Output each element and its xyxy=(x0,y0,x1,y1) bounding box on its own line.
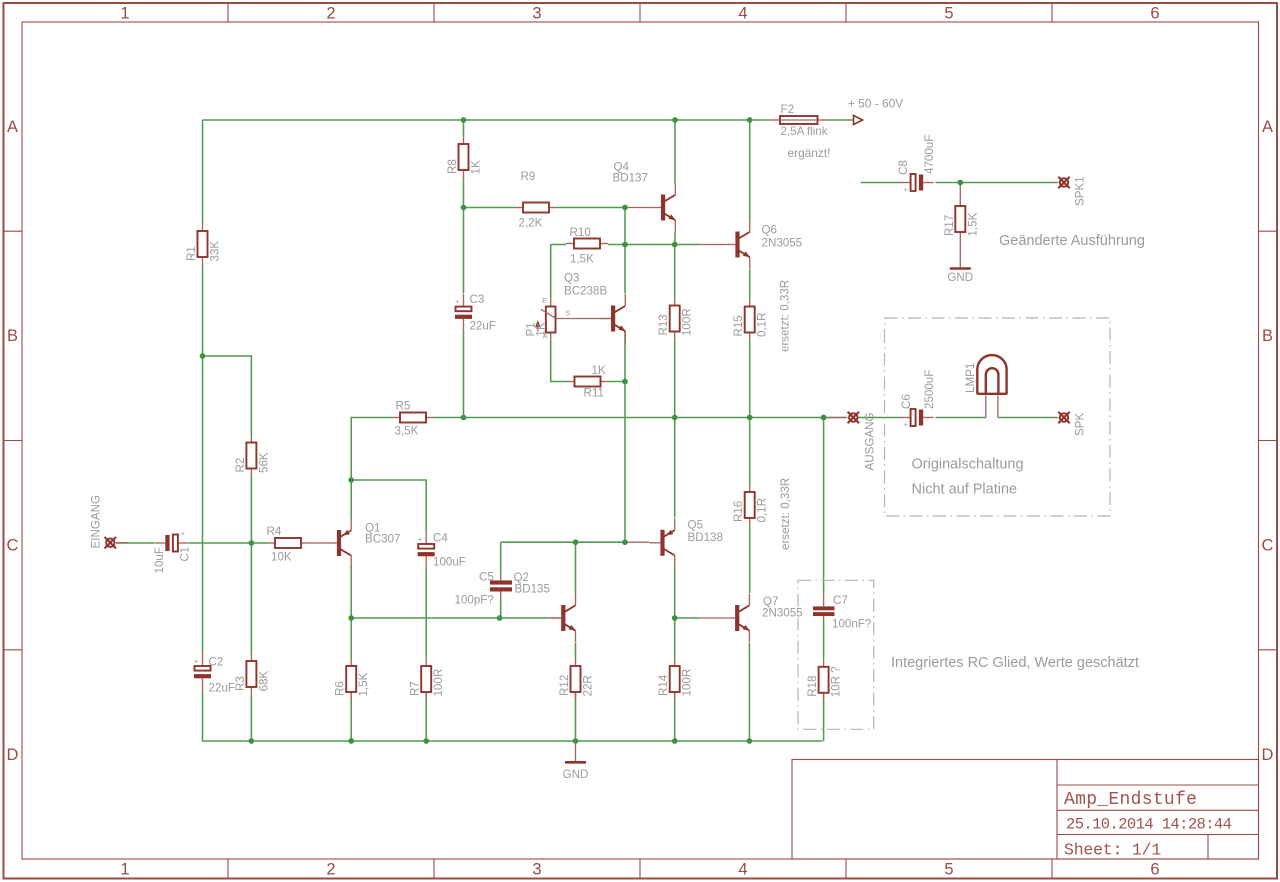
svg-text:+: + xyxy=(904,185,909,194)
wire P1 A to R11 xyxy=(551,341,567,382)
svg-text:4: 4 xyxy=(738,861,747,879)
svg-text:ergänzt!: ergänzt! xyxy=(788,146,831,160)
transistor Q7 xyxy=(724,594,803,643)
wire Q6 emitter to R15 xyxy=(749,270,751,299)
svg-text:1K: 1K xyxy=(592,364,606,377)
junction R1 bottom xyxy=(200,353,206,359)
fuse F2 xyxy=(770,103,828,138)
wire C4 to R7 xyxy=(425,569,427,658)
svg-text:BC238B: BC238B xyxy=(564,285,607,298)
transistor Q4 xyxy=(613,161,676,233)
pin wire node to R17 xyxy=(959,183,961,199)
junction out rail C7 branch xyxy=(821,415,827,421)
dashed box RC Glied xyxy=(798,580,874,729)
svg-text:R6: R6 xyxy=(334,681,347,696)
svg-text:D: D xyxy=(7,746,19,764)
svg-text:SPK1: SPK1 xyxy=(1074,176,1087,206)
wire to C8 xyxy=(861,182,900,184)
svg-text:AUSGANG: AUSGANG xyxy=(864,413,877,471)
svg-text:+: + xyxy=(904,420,909,429)
resistor R10 xyxy=(566,226,608,266)
wire C8 to SPK1 xyxy=(936,182,1054,184)
capacitor C6 xyxy=(900,370,936,429)
svg-text:R16: R16 xyxy=(732,501,745,522)
wire rail to R8 xyxy=(463,120,465,136)
junction rail R6 xyxy=(348,738,354,744)
wire R13 to output rail xyxy=(674,340,676,418)
wire R7 to bottom rail xyxy=(425,692,427,741)
wire R11 to node xyxy=(609,381,626,383)
transistor Q6 xyxy=(724,220,802,269)
pin wire R17 to GND xyxy=(959,240,961,267)
svg-text:R17: R17 xyxy=(943,215,956,236)
junction Q5 base node xyxy=(622,539,628,545)
svg-text:C1: C1 xyxy=(179,547,192,562)
svg-text:100R: 100R xyxy=(681,308,694,336)
capacitor C3 xyxy=(455,293,496,333)
terminal SPK1 xyxy=(1058,177,1069,188)
svg-text:R5: R5 xyxy=(396,400,411,413)
svg-text:3: 3 xyxy=(532,5,541,23)
svg-text:BD138: BD138 xyxy=(688,531,723,544)
transistor Q1 xyxy=(326,519,401,568)
junction rail Q7 xyxy=(747,738,753,744)
wire Q4 base node down xyxy=(624,208,626,245)
wire R8 node to R9 xyxy=(464,207,516,209)
svg-text:1: 1 xyxy=(120,5,129,23)
junction C5 bottom node xyxy=(497,615,503,621)
transistor Q3 xyxy=(564,272,626,344)
wire Q1 collector to R6 xyxy=(350,566,352,658)
wire Q7 emitter to bottom rail xyxy=(748,643,750,741)
svg-text:1,5K: 1,5K xyxy=(966,212,979,236)
wire output rail to R16 xyxy=(749,418,751,485)
wire R18 to bottom rail xyxy=(823,693,825,741)
pin wire to supply arrow xyxy=(851,119,854,121)
wire Q1 collector row xyxy=(351,617,548,619)
svg-text:E: E xyxy=(542,296,547,305)
wire output rail to Q5 emitter xyxy=(674,418,676,518)
wire output node to C7 xyxy=(823,418,825,594)
svg-text:Integriertes RC Glied, Werte g: Integriertes RC Glied, Werte geschätzt xyxy=(891,655,1139,671)
wire R6 to bottom rail xyxy=(350,692,352,741)
svg-text:2: 2 xyxy=(326,5,335,23)
resistor R11 xyxy=(567,364,609,400)
junction R9-Q4 xyxy=(622,205,628,211)
junction rail-Q6 xyxy=(747,117,753,123)
junction rail R12 xyxy=(573,738,579,744)
wire R16 to Q7 collector xyxy=(749,526,751,593)
resistor R7 xyxy=(409,658,446,700)
svg-text:ersetzt: 0,33R: ersetzt: 0,33R xyxy=(779,478,792,550)
wire top supply rail xyxy=(203,119,771,121)
capacitor C7 xyxy=(813,593,872,631)
svg-text:10uF: 10uF xyxy=(153,547,166,573)
svg-text:C5: C5 xyxy=(479,571,494,584)
svg-text:R1: R1 xyxy=(185,246,198,261)
ground GND1 xyxy=(947,269,973,285)
svg-text:2: 2 xyxy=(326,861,335,879)
svg-text:33K: 33K xyxy=(209,241,222,262)
svg-text:6: 6 xyxy=(1150,5,1159,23)
wire R8 to C3 xyxy=(463,178,465,293)
svg-text:R9: R9 xyxy=(521,170,536,183)
wire LMP1 to SPK xyxy=(998,417,1053,419)
svg-text:A: A xyxy=(7,118,18,136)
svg-text:B: B xyxy=(1262,327,1273,345)
svg-text:10K: 10K xyxy=(271,551,292,564)
pin wire Q5 base xyxy=(625,541,649,543)
wire Q4 emitter to node xyxy=(674,232,676,245)
wire node to R13 xyxy=(674,245,676,298)
svg-text:Sheet: 1/1: Sheet: 1/1 xyxy=(1064,841,1161,860)
svg-text:+: + xyxy=(455,297,460,306)
svg-text:C7: C7 xyxy=(833,594,848,607)
svg-text:Geänderte Ausführung: Geänderte Ausführung xyxy=(999,233,1145,249)
svg-text:GND: GND xyxy=(947,271,973,284)
pin wire Q2 base xyxy=(549,617,562,619)
potentiometer P1 xyxy=(525,296,571,341)
svg-text:25.10.2014 14:28:44: 25.10.2014 14:28:44 xyxy=(1066,816,1232,834)
pin wire P1 wiper to Q3 base xyxy=(556,318,611,320)
svg-text:C6: C6 xyxy=(900,394,913,409)
resistor R13 xyxy=(657,298,694,340)
junction rail-Q4 xyxy=(672,117,678,123)
svg-text:F2: F2 xyxy=(781,103,795,116)
wire R12 to bottom rail xyxy=(575,692,577,741)
pin wire Q6 base xyxy=(700,244,724,246)
junction Q4 emitter node xyxy=(672,242,678,248)
resistor R1 xyxy=(185,223,222,265)
dashed box Originalschaltung xyxy=(885,318,1111,516)
wire down to C5 xyxy=(500,542,502,574)
svg-text:100R: 100R xyxy=(681,669,694,697)
wire R15 to output rail xyxy=(749,341,751,418)
svg-text:2,5A flink: 2,5A flink xyxy=(781,125,828,138)
transistor Q2 xyxy=(514,571,576,643)
wire Q5 collector node to Q7 base xyxy=(675,617,700,619)
resistor R16 xyxy=(732,484,769,526)
pin wire SPK xyxy=(1053,417,1058,419)
resistor R17 xyxy=(943,198,980,240)
wire fuse to supply arrow xyxy=(826,119,851,121)
svg-text:R4: R4 xyxy=(267,525,282,538)
svg-text:10R ?: 10R ? xyxy=(830,666,843,697)
svg-text:0,1R: 0,1R xyxy=(756,498,769,523)
svg-text:+ 50 - 60V: + 50 - 60V xyxy=(848,97,903,111)
wire AUSGANG to C6 xyxy=(858,417,900,419)
wire output rail xyxy=(434,417,846,419)
wire rail to Q6 collector xyxy=(749,120,751,220)
svg-text:4700uF: 4700uF xyxy=(923,135,936,174)
capacitor C2 xyxy=(194,653,235,695)
junction rail R7 xyxy=(423,738,429,744)
wire EINGANG to C1 xyxy=(116,542,154,544)
svg-text:R15: R15 xyxy=(732,315,745,336)
junction R10 right xyxy=(622,242,628,248)
capacitor C1 xyxy=(153,529,192,574)
wire C1 to R4 xyxy=(189,542,268,544)
svg-text:2N3055: 2N3055 xyxy=(762,237,803,250)
svg-text:6: 6 xyxy=(1150,861,1159,879)
wire Q1 emitter to R5 xyxy=(351,418,392,519)
wire node to Q2 collector xyxy=(575,542,577,594)
svg-text:1: 1 xyxy=(120,861,129,879)
terminal AUSGANG xyxy=(848,412,859,423)
svg-text:5: 5 xyxy=(944,5,953,23)
svg-text:100nF?: 100nF? xyxy=(832,618,872,631)
svg-text:3: 3 xyxy=(532,861,541,879)
ground GND2 xyxy=(563,762,589,781)
junction out rail C3 xyxy=(461,415,467,421)
svg-text:100pF?: 100pF? xyxy=(455,594,495,607)
svg-text:22uF: 22uF xyxy=(209,682,235,695)
junction Q1 collector node xyxy=(348,615,354,621)
svg-text:56K: 56K xyxy=(257,452,270,473)
svg-text:GND: GND xyxy=(563,768,589,781)
svg-text:R8: R8 xyxy=(446,159,459,174)
pin wire Q7 base xyxy=(700,617,724,619)
wire C6 to LMP1 xyxy=(936,417,986,419)
pin wire EINGANG xyxy=(116,542,128,544)
svg-text:C: C xyxy=(1262,537,1274,555)
junction R11 node xyxy=(622,379,628,385)
svg-text:3,5K: 3,5K xyxy=(395,425,419,438)
lamp LMP1 xyxy=(964,355,1007,417)
svg-text:C: C xyxy=(7,537,19,555)
resistor R9 xyxy=(515,170,557,230)
svg-text:100R: 100R xyxy=(432,669,445,697)
capacitor C8 xyxy=(897,135,936,194)
svg-text:68K: 68K xyxy=(257,671,270,692)
svg-text:0,1R: 0,1R xyxy=(756,313,769,338)
svg-text:SPK: SPK xyxy=(1074,413,1087,436)
svg-text:EINGANG: EINGANG xyxy=(90,495,103,548)
svg-text:1,5K: 1,5K xyxy=(357,672,370,696)
svg-text:ersetzt: 0,33R: ersetzt: 0,33R xyxy=(779,280,792,352)
junction Q2 collector node xyxy=(573,539,579,545)
transistor Q5 xyxy=(649,518,723,567)
resistor R4 xyxy=(267,525,310,564)
junction rail-R8 xyxy=(461,117,467,123)
wire R2 to R3 xyxy=(250,477,252,654)
resistor R5 xyxy=(392,400,434,438)
wire node to Q3 collector xyxy=(624,245,626,294)
svg-text:R18: R18 xyxy=(806,676,819,697)
terminal EINGANG xyxy=(105,537,116,548)
wire node to R14 xyxy=(674,618,676,658)
svg-text:C4: C4 xyxy=(433,532,448,545)
svg-text:R7: R7 xyxy=(409,681,422,696)
wire R3 to bottom rail xyxy=(250,695,252,741)
svg-text:BD137: BD137 xyxy=(613,172,648,185)
svg-text:2N3055: 2N3055 xyxy=(762,607,803,620)
wire C7 to R18 xyxy=(823,620,825,659)
svg-text:S: S xyxy=(565,309,570,318)
svg-text:1K: 1K xyxy=(470,160,483,174)
junction rail R14b xyxy=(672,738,678,744)
svg-text:BC307: BC307 xyxy=(365,533,400,546)
pin wire rail to GND bar xyxy=(575,741,577,761)
junction rail R3 xyxy=(249,738,255,744)
svg-text:R10: R10 xyxy=(570,226,591,239)
wire C2 to bottom rail xyxy=(203,691,823,741)
svg-text:2500uF: 2500uF xyxy=(923,370,936,409)
wire R9 to Q4 base node xyxy=(557,207,625,209)
pin wire AUSGANG xyxy=(829,417,848,419)
pin wire R4 to Q1 base xyxy=(309,542,326,544)
svg-text:BD135: BD135 xyxy=(515,583,550,596)
wire C5 node row xyxy=(501,541,625,543)
junction out rail R13 xyxy=(672,415,678,421)
svg-text:4: 4 xyxy=(738,5,747,23)
svg-text:22uF: 22uF xyxy=(470,320,496,333)
svg-text:2,2K: 2,2K xyxy=(519,217,543,230)
svg-text:22R: 22R xyxy=(582,675,595,696)
svg-text:1K: 1K xyxy=(535,322,548,336)
junction R8-R9 xyxy=(461,205,467,211)
svg-text:C2: C2 xyxy=(209,656,224,669)
wire R11 node to Q5 base node xyxy=(624,382,626,543)
svg-text:R12: R12 xyxy=(558,675,571,696)
wire Q2 emitter to R12 xyxy=(575,643,577,658)
svg-text:R3: R3 xyxy=(234,676,247,691)
svg-text:+: + xyxy=(181,529,186,538)
svg-text:A: A xyxy=(1262,118,1273,136)
junction R14 node xyxy=(672,615,678,621)
wire C5 to Q2 base row xyxy=(500,598,502,618)
resistor R6 xyxy=(334,658,371,700)
wire R10 left xyxy=(551,244,566,246)
svg-text:C3: C3 xyxy=(470,293,485,306)
svg-text:D: D xyxy=(1262,746,1274,764)
svg-text:Originalschaltung: Originalschaltung xyxy=(912,457,1024,473)
wire node X to R2 xyxy=(203,356,252,435)
svg-text:100uF: 100uF xyxy=(433,556,466,569)
capacitor C4 xyxy=(418,531,466,569)
junction out rail R15 xyxy=(747,415,753,421)
resistor R8 xyxy=(446,136,483,178)
resistor R2 xyxy=(234,435,271,477)
wire R10 right xyxy=(608,244,625,246)
pin wire SPK1 xyxy=(1053,182,1058,184)
resistor R18 xyxy=(806,659,843,701)
junction input node xyxy=(249,540,255,546)
wire R14 to bottom rail xyxy=(674,692,676,741)
wire R1 to C2 xyxy=(202,265,204,653)
wire node to Q6 base xyxy=(675,244,700,246)
wire Q4 emitter node left xyxy=(625,244,675,246)
wire Q5 collector to node xyxy=(674,567,676,618)
pin wire Q4 base xyxy=(625,207,650,209)
svg-text:Nicht auf Platine: Nicht auf Platine xyxy=(912,482,1018,498)
svg-text:+: + xyxy=(418,535,423,544)
svg-text:+: + xyxy=(194,657,199,666)
svg-text:LMP1: LMP1 xyxy=(964,363,977,393)
junction out node xyxy=(821,415,827,421)
resistor R3 xyxy=(234,653,271,695)
svg-text:5: 5 xyxy=(944,861,953,879)
wire rail to Q4 collector xyxy=(674,120,676,183)
svg-text:R13: R13 xyxy=(657,314,670,335)
supply arrow +50-60V xyxy=(854,115,863,124)
svg-text:Q3: Q3 xyxy=(564,272,579,285)
junction C8 node xyxy=(957,180,963,186)
svg-text:1,5K: 1,5K xyxy=(570,253,594,266)
resistor R15 xyxy=(732,299,769,341)
svg-text:Q5: Q5 xyxy=(688,519,703,532)
svg-text:R2: R2 xyxy=(234,458,247,473)
junction bootstrap node xyxy=(348,477,354,483)
wire down to P1 E xyxy=(550,245,552,299)
resistor R12 xyxy=(558,658,595,700)
svg-text:B: B xyxy=(7,327,18,345)
wire V+ rail down to R1 xyxy=(202,120,204,223)
svg-text:R14: R14 xyxy=(657,674,670,696)
wire C3 to output rail xyxy=(463,331,465,418)
wire Q3 emitter to R11 node xyxy=(624,331,626,382)
svg-text:Q6: Q6 xyxy=(762,224,777,237)
capacitor C5 xyxy=(455,571,513,607)
wire bootstrap node to C4 xyxy=(351,480,426,531)
svg-text:C8: C8 xyxy=(897,160,910,175)
resistor R14 xyxy=(657,658,694,700)
svg-text:Amp_Endstufe: Amp_Endstufe xyxy=(1064,790,1197,810)
svg-text:R11: R11 xyxy=(584,387,604,400)
title block xyxy=(792,760,1259,860)
terminal SPK xyxy=(1058,412,1069,423)
